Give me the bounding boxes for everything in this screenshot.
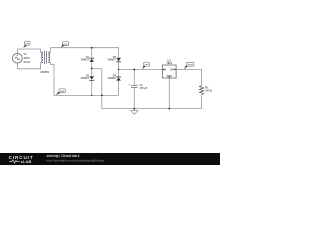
svg-text:OUT: OUT: [170, 69, 175, 71]
svg-text:1N4007: 1N4007: [80, 77, 89, 80]
svg-text:V1: V1: [24, 52, 28, 56]
svg-text:1N4007: 1N4007: [80, 59, 89, 62]
svg-text:1N4007: 1N4007: [107, 59, 116, 62]
svg-text:GND: GND: [167, 76, 172, 78]
svg-text:470 µF: 470 µF: [140, 87, 148, 90]
svg-text:IN: IN: [164, 69, 167, 71]
svg-text:http://circuitlab.com/c/uadcdh: http://circuitlab.com/c/uadcdhpcqkdb5e8t…: [47, 158, 105, 162]
svg-text:XFMR1: XFMR1: [40, 70, 49, 74]
svg-text:1N4007: 1N4007: [107, 77, 116, 80]
svg-text:100 Ω: 100 Ω: [205, 90, 212, 93]
svg-text:120V: 120V: [24, 56, 30, 60]
svg-text:7812: 7812: [166, 61, 172, 65]
svg-text:▸LAB: ▸LAB: [20, 160, 32, 164]
svg-text:60 Hz: 60 Hz: [24, 60, 32, 64]
